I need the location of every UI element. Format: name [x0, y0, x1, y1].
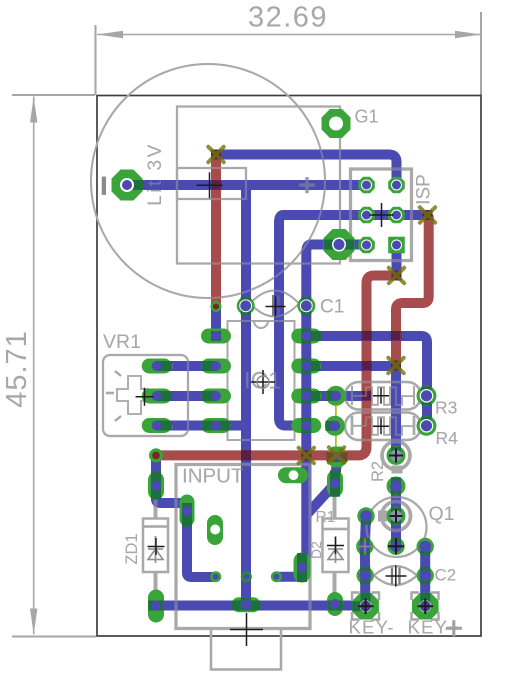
IC1 pin1 notch — [254, 321, 268, 328]
board origin cross bottom-right — [446, 620, 462, 636]
KEY- bracket marks — [352, 593, 379, 620]
IC1 left column oval pads — [201, 329, 231, 434]
INPUT connector tab silkscreen — [211, 629, 281, 670]
VR1 origin cross — [136, 388, 154, 406]
battery origin cross — [197, 172, 223, 198]
ZD1 diode symbol — [148, 536, 163, 563]
via X3 — [420, 207, 435, 222]
board outline — [97, 96, 481, 637]
Q1 origin cross — [388, 538, 404, 554]
wire blue Q1 right to KEY+ — [420, 547, 430, 607]
R1 diode symbol — [328, 536, 343, 563]
ZD1 origin cross — [148, 538, 165, 555]
battery holder circle silkscreen — [91, 64, 325, 298]
R3 left pad — [326, 386, 346, 406]
dark overlap redraws where red crosses blue verticals — [211, 180, 400, 460]
wire blue ISP pad6 to X2 — [392, 245, 402, 276]
airwire unrouted yellow — [335, 398, 337, 452]
R3 zigzag symbol — [353, 387, 413, 405]
pad battery octagon — [112, 170, 144, 201]
via 156,455 red end — [149, 448, 163, 462]
VR1 rotation ticks — [106, 371, 121, 421]
C2 plates — [392, 568, 400, 585]
R3 right pad — [417, 386, 437, 406]
vertical dimension line 45.71 — [33, 97, 35, 635]
svg-text:45.71: 45.71 — [1, 330, 33, 408]
C1 left pad — [237, 297, 255, 315]
svg-text:32.69: 32.69 — [248, 2, 328, 34]
horizontal dimension line 32.69 — [97, 34, 481, 36]
wire blue via156 to ZD1 top to INPUT pad3 chain — [156, 455, 216, 577]
pad G1 octagon — [322, 109, 351, 138]
pad KEY- octagon — [352, 593, 379, 620]
R4 right pad — [417, 416, 437, 436]
INPUT connector box silkscreen — [176, 465, 310, 629]
Q1 middle pad — [387, 538, 404, 555]
Q1 right pad — [417, 538, 434, 555]
via X1 — [208, 147, 223, 162]
IC1 body silkscreen — [228, 321, 295, 440]
ZD1 lead top — [154, 498, 158, 519]
C2 origin cross — [386, 566, 407, 587]
C2 right pad — [417, 567, 434, 584]
pad octagon node 337,457 — [327, 447, 348, 468]
wire blue X1 to ISP pad2 — [216, 155, 397, 186]
wire blue via276 to pad302 — [276, 567, 302, 577]
via 246,577 — [241, 571, 252, 582]
Q1 body circle silkscreen — [367, 497, 427, 557]
via X5 — [299, 448, 314, 463]
R3 origin cross — [373, 388, 389, 404]
R1 origin cross — [327, 537, 344, 554]
battery plus cross gray — [299, 177, 315, 193]
INPUT center pad oval — [232, 597, 261, 612]
R4 left pad — [325, 416, 345, 436]
Q1 left pad — [356, 538, 373, 555]
wire blue ISP row2 to corner and IC1 pin5 — [279, 215, 427, 426]
Q1 collector pad 396,516 — [387, 507, 406, 526]
R1 lead bottom — [333, 571, 337, 593]
dimension witness line right-top vertical — [480, 12, 482, 95]
wire blue vertical rail via C1 left to INPUT center — [241, 187, 251, 600]
wire blue X4 to R2 top — [391, 366, 401, 456]
ZD1 body silkscreen — [143, 519, 168, 573]
battery holder body rect silkscreen — [177, 107, 340, 264]
ZD1 bottom oval pad — [148, 590, 164, 623]
IC1 origin circlet — [257, 376, 269, 388]
C2 left pad — [357, 567, 374, 584]
IC1 right column oval pads — [291, 329, 321, 434]
wire blue bottom rail ZD1 to KEY- — [156, 601, 365, 611]
Q1 via pad 366,516 — [357, 507, 374, 524]
R1 top oval pad — [327, 470, 343, 497]
R1 cathode band — [323, 528, 349, 530]
pad KEY+ octagon — [412, 593, 439, 620]
KEY+ bracket marks — [412, 593, 439, 620]
wire red X3 jog down to X4 — [396, 217, 429, 364]
battery minus mark — [102, 177, 106, 195]
R4 body silkscreen — [345, 413, 421, 441]
via junction overlap blends — [211, 150, 433, 371]
IC1 origin cross — [251, 370, 275, 394]
R2 top pad silk ring — [382, 442, 410, 470]
wire blue R2 bottom to Q1 pads — [391, 486, 401, 546]
VR1 wiper symbol — [117, 376, 148, 414]
dimension witness line top-left horizontal — [12, 94, 95, 96]
pad302 oval — [294, 553, 311, 583]
via X4 — [388, 358, 403, 373]
VR1 body silkscreen — [103, 355, 188, 436]
INPUT pad3 oval 187,510 — [180, 495, 195, 527]
R1 body silkscreen — [323, 519, 349, 573]
C1 right pad — [297, 297, 315, 315]
KEY+ origin cross — [418, 599, 434, 615]
wire blue IC1 pin6 to R3 left area — [306, 391, 365, 401]
R1 bottom oval pad — [327, 592, 343, 616]
via X2 — [389, 268, 404, 283]
wire blue VR1 row1 to IC1 pin4 row — [157, 361, 216, 371]
KEY- origin cross — [358, 599, 374, 615]
Q1 left pad gray cross — [357, 539, 373, 555]
wire blue VR1 row3 to IC1 pin2 row and stub to rail — [157, 421, 246, 431]
dimension witness line bottom-left horizontal — [12, 636, 96, 638]
R1 lead top — [333, 496, 337, 519]
C1 origin cross — [266, 297, 286, 317]
via 216,306 red-blue junction — [211, 301, 222, 312]
C2 lens outline silkscreen — [374, 566, 417, 585]
ZD1 top oval pad — [148, 472, 164, 500]
R2 body bar — [392, 466, 403, 474]
Q1 tab square — [378, 511, 388, 522]
INPUT pad2 oval with hole — [207, 515, 223, 545]
wire red X2 jog to X5 octagon and left rail to via156 — [156, 276, 394, 456]
R3 body silkscreen — [345, 382, 421, 410]
Q1 collector cross — [390, 510, 403, 523]
dark overlap red over blue crossings — [211, 180, 401, 461]
ISP pads octagons — [358, 177, 405, 254]
VR1 oval pads — [142, 359, 172, 434]
wire blue VR1 row2 to IC1 pin3 row — [157, 391, 216, 401]
C1 plates — [273, 295, 279, 316]
wire red battery X1 down to via — [211, 155, 221, 307]
R4 origin cross — [373, 418, 389, 434]
INPUT origin cross — [230, 613, 263, 646]
R2 origin cross — [389, 449, 403, 463]
via 276,577 — [271, 571, 282, 582]
wire blue battery pad to ISP pad1 — [127, 180, 367, 190]
via X marks — [208, 147, 435, 463]
wire blue IC1 pin8 to R3 and R4 right pads — [306, 336, 427, 426]
R2 top pad — [387, 446, 406, 465]
R4 zigzag symbol — [353, 417, 413, 435]
Q1 collector pad silk ring — [382, 502, 411, 531]
wire blue octagon457 to R1 top to diagonal — [307, 459, 337, 515]
ZD1 lead bottom — [154, 571, 158, 592]
wire blue KEY- column — [365, 516, 366, 606]
pad octagon node 339,244 — [324, 229, 355, 260]
ISP header box silkscreen — [351, 169, 412, 261]
via X6 — [329, 447, 344, 462]
ZD1 cathode band — [143, 525, 168, 527]
via 215.7,577 — [210, 571, 221, 582]
origin crosses black — [136, 172, 434, 646]
silkscreen blend over traces — [91, 64, 462, 670]
R2 bottom pad — [387, 477, 406, 496]
C1 lens outline silkscreen — [250, 291, 299, 317]
dimension witness line left-top vertical — [95, 25, 97, 95]
ISP origin cross — [370, 203, 394, 227]
wire blue IC1 pin7 to X4 — [306, 361, 396, 371]
wire blue via to IC1 pin1 — [211, 307, 221, 337]
wire blue octagon row to ISP pad5 and C1 right rail — [302, 245, 367, 568]
INPUT pad1 oval with hole — [278, 467, 308, 483]
battery holder contact slot silkscreen — [177, 168, 246, 199]
